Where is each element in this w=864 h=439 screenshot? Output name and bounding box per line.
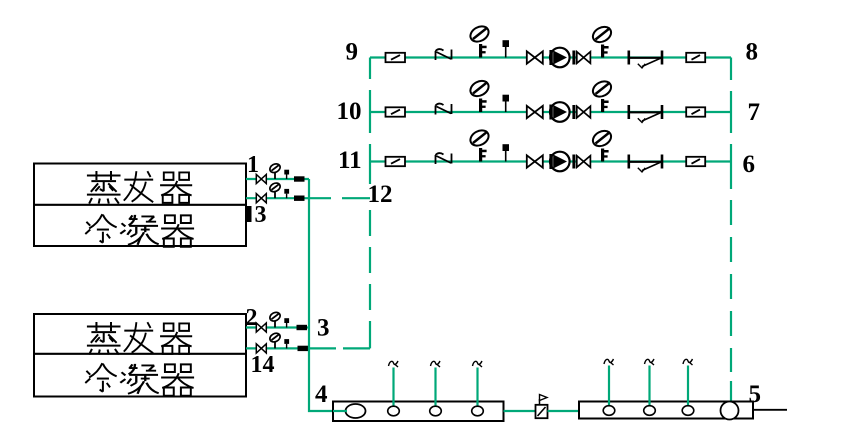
pressure gauge line 11-6 second [590,128,613,162]
connection circle 1 on right header [603,406,615,416]
valve (gate, small) on stub 14 [256,344,266,353]
unit 1 evaporator/condenser box [34,164,246,247]
pressure gauge (small) on stub 1 [268,162,281,179]
wire: stub pipe node 1 (unit 1 supply) [246,178,309,180]
connection circle 2 on left header [430,406,442,416]
pump line 9-8 [549,48,569,68]
unit 2 label 蒸发器 (evaporator) [87,322,192,354]
unit 2 evaporator/condenser box [34,314,246,397]
valve (gate) line 10-7 after pump [572,105,590,119]
flange bar at node 13 (box edge) [245,206,252,222]
wire: stub pipe node 2 (unit 2 supply) [246,326,309,328]
wire: line 9 left corner down [369,58,371,80]
wire: stub pipe node 13 (unit 1 return) [246,197,331,199]
valve (shut-off) line 9-8 right [686,53,705,62]
wire: pipe line 11-6 horizontal [370,160,731,162]
wire: vent stem 1 on right header [608,366,610,406]
wire: pipe into left header [333,410,347,412]
wire: node 7 tick [730,91,732,133]
thermometer (small) on stub 2 [284,318,289,327]
thermometer (small) on stub 1 [284,170,289,179]
automatic vent valve 3 (right header) [683,359,693,365]
svg-text:11: 11 [338,147,362,174]
valve (gate, small) on stub 1 [256,174,266,183]
wire: vent stem 2 on right header [648,366,650,406]
wire: vent stem 3 on right header [687,366,689,406]
pressure gauge line 11-6 first [468,127,491,161]
thermometer line 9-8 first [503,40,510,57]
wire: pipe between headers (right half) [548,410,580,412]
flange on stub 2 [297,325,308,330]
wire: vent stem 3 on left header [476,368,478,407]
pressure gauge line 10-7 first [468,78,491,112]
pump line 11-6 [549,152,569,172]
pressure gauge line 9-8 first [468,23,491,57]
thermometer line 11-6 first [503,144,510,161]
svg-text:2: 2 [246,305,258,331]
svg-text:6: 6 [743,151,756,178]
connection circle 3 on right header [682,406,694,416]
svg-text:7: 7 [748,99,761,126]
unit 1 label 冷凝器 (condenser) [85,214,194,247]
flexible connector line 11-6 [436,153,452,164]
connection circle 3 on left header [472,406,484,416]
check (butterfly) valve line 9-8 [629,51,662,69]
valve (shut-off) line 11-6 right [686,157,705,166]
wire: pipe line 9-8 horizontal [370,56,731,58]
valve (gate, small) on stub 2 [256,323,266,332]
thermometer (small) on stub 13 [284,189,289,198]
valve (shut-off) line 9-8 left [386,53,406,62]
wire: vent stem 2 on left header [434,368,436,407]
automatic vent valve 2 (left header) [431,361,441,367]
wire: left dashed riser (node 12 line) [342,90,370,348]
valve (shut-off) line 10-7 right [686,107,705,116]
thermometer (small) on stub 14 [284,339,289,348]
valve (gate) line 10-7 before pump [527,106,543,118]
unit 1 label 蒸发器 (evaporator) [87,171,192,203]
svg-text:8: 8 [746,39,759,66]
pump line 10-7 [549,102,569,122]
wire: node 6 tick [730,144,732,189]
valve (gate) line 11-6 after pump [572,155,590,169]
flange on stub 14 [298,346,309,351]
svg-text:12: 12 [368,181,393,208]
check (butterfly) valve line 10-7 [629,105,662,123]
pump (circulating) in right header [721,402,739,420]
connection circle 1 on left header [388,406,400,416]
valve (gate) line 9-8 before pump [527,51,543,63]
flexible connector line 10-7 [436,104,452,115]
svg-text:3: 3 [255,202,267,228]
pressure gauge line 10-7 second [590,78,613,112]
wire: black outlet line from right header [753,409,787,411]
svg-text:14: 14 [251,352,275,378]
svg-text:10: 10 [337,98,362,125]
valve (shut-off) line 10-7 left [386,107,406,116]
flexible connector line 9-8 [436,49,452,60]
automatic vent valve 2 (right header) [645,359,655,365]
automatic vent valve 3 (left header) [473,361,483,367]
automatic vent valve 1 (right header) [604,359,614,365]
wire: stub pipe node 14 (unit 2 return) [246,347,336,349]
unit 2 label 冷凝器 (condenser) [85,363,194,396]
manifold (left header) node 4 [333,402,504,422]
wire: line 8 right corner down [730,58,732,81]
connection circle 2 on right header [644,406,656,416]
valve (gate) line 9-8 after pump [572,51,590,65]
flange on stub 13 [294,196,305,201]
wire: right dashed drop to node 5 [730,200,732,406]
balancing valve between headers [536,395,548,419]
svg-text:1: 1 [247,152,259,178]
wire: vent stem 1 on left header [392,368,394,407]
wire: pipe line 10-7 horizontal [370,111,731,113]
svg-text:4: 4 [315,381,328,408]
pressure gauge (small) on stub 13 [268,181,281,198]
manifold (right header) node 5 [579,402,753,419]
wire: pipe between headers (left half) [504,410,536,412]
flange on stub 1 [294,176,305,181]
valve (gate) line 11-6 before pump [527,155,543,167]
valve (gate, small) on stub 13 [256,194,266,203]
thermometer line 10-7 first [503,95,510,112]
automatic vent valve 1 (left header) [389,361,399,367]
svg-text:5: 5 [749,381,762,408]
pressure gauge (small) on stub 2 [268,311,281,328]
pump (circulating) in left header [346,404,366,418]
svg-text:9: 9 [346,39,359,66]
check (butterfly) valve line 11-6 [629,155,662,173]
pressure gauge (small) on stub 14 [268,332,281,349]
pressure gauge line 9-8 second [590,24,613,58]
wire: main solid pipe from node 1 down to pump manifold [309,179,347,411]
svg-text:3: 3 [317,315,330,342]
valve (shut-off) line 11-6 left [386,157,406,166]
